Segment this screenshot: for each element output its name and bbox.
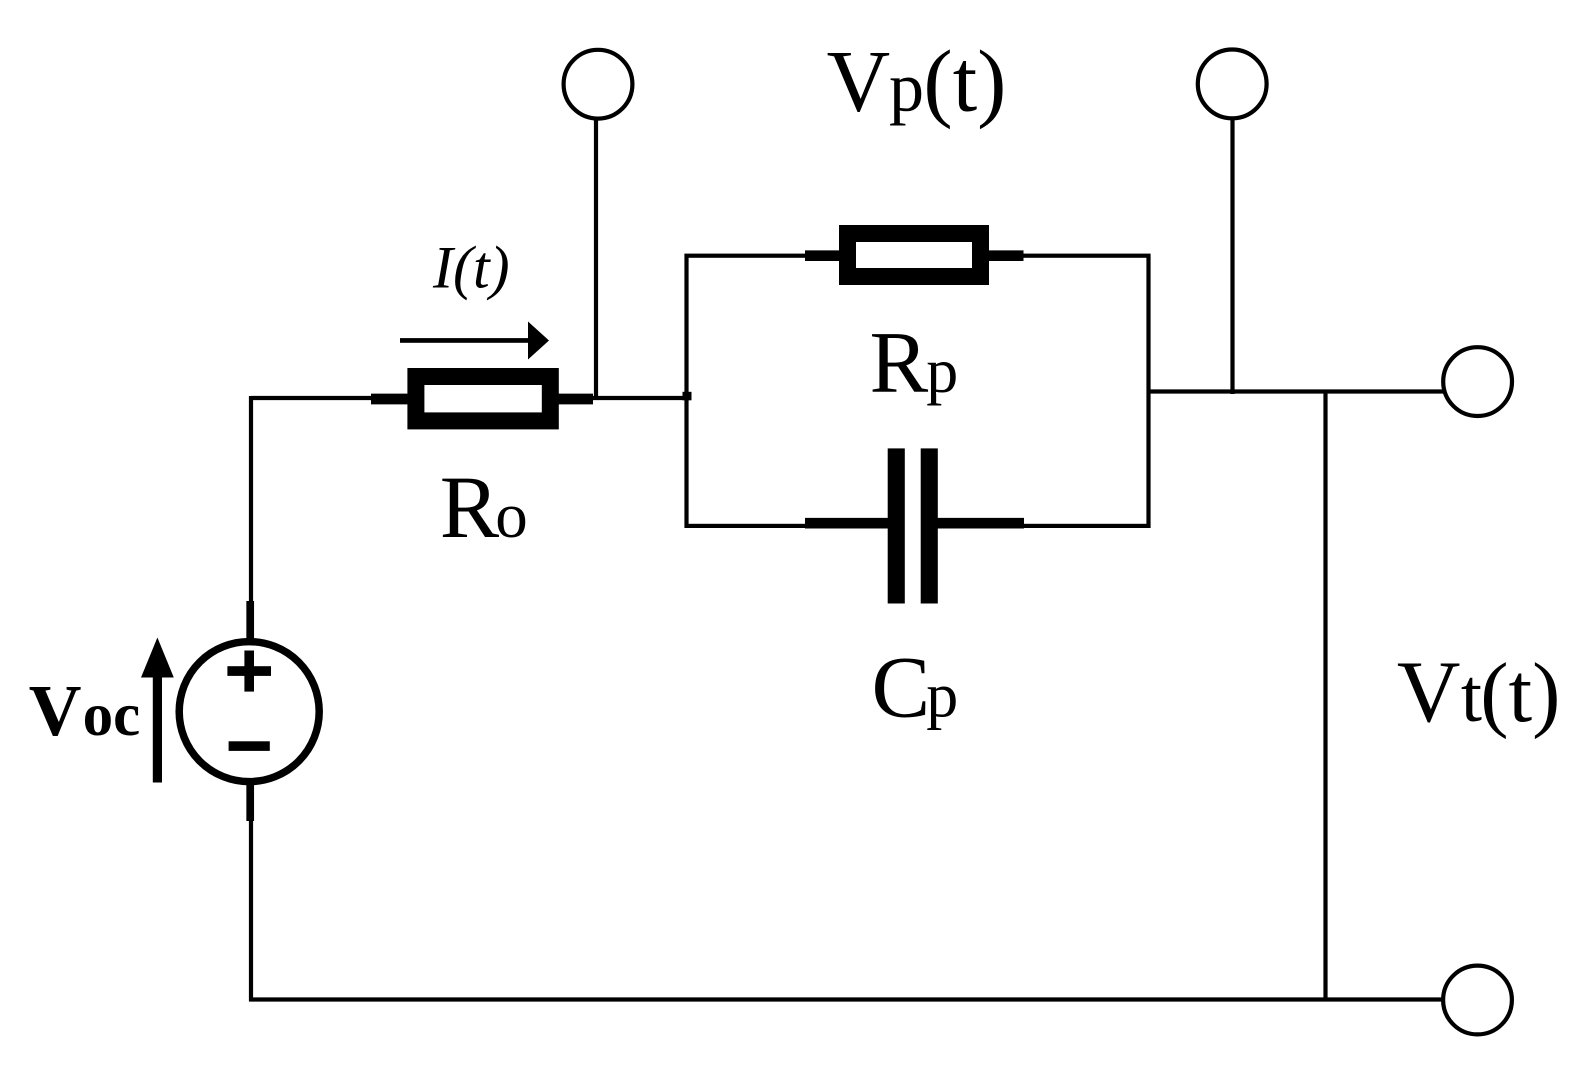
- svg-text:R: R: [870, 315, 929, 412]
- svg-text:p: p: [889, 50, 924, 127]
- svg-text:I(t): I(t): [432, 235, 510, 301]
- svg-text:p: p: [926, 335, 958, 406]
- svg-text:V: V: [827, 34, 891, 131]
- svg-text:o: o: [495, 480, 528, 552]
- svg-text:t: t: [1461, 654, 1482, 738]
- svg-text:(t): (t): [1480, 646, 1560, 740]
- svg-text:R: R: [440, 459, 500, 557]
- svg-text:V: V: [1397, 644, 1461, 741]
- svg-text:(t): (t): [923, 34, 1006, 131]
- svg-text:C: C: [872, 640, 931, 737]
- svg-text:V: V: [29, 670, 82, 751]
- svg-text:p: p: [926, 660, 958, 731]
- svg-text:oc: oc: [83, 682, 141, 749]
